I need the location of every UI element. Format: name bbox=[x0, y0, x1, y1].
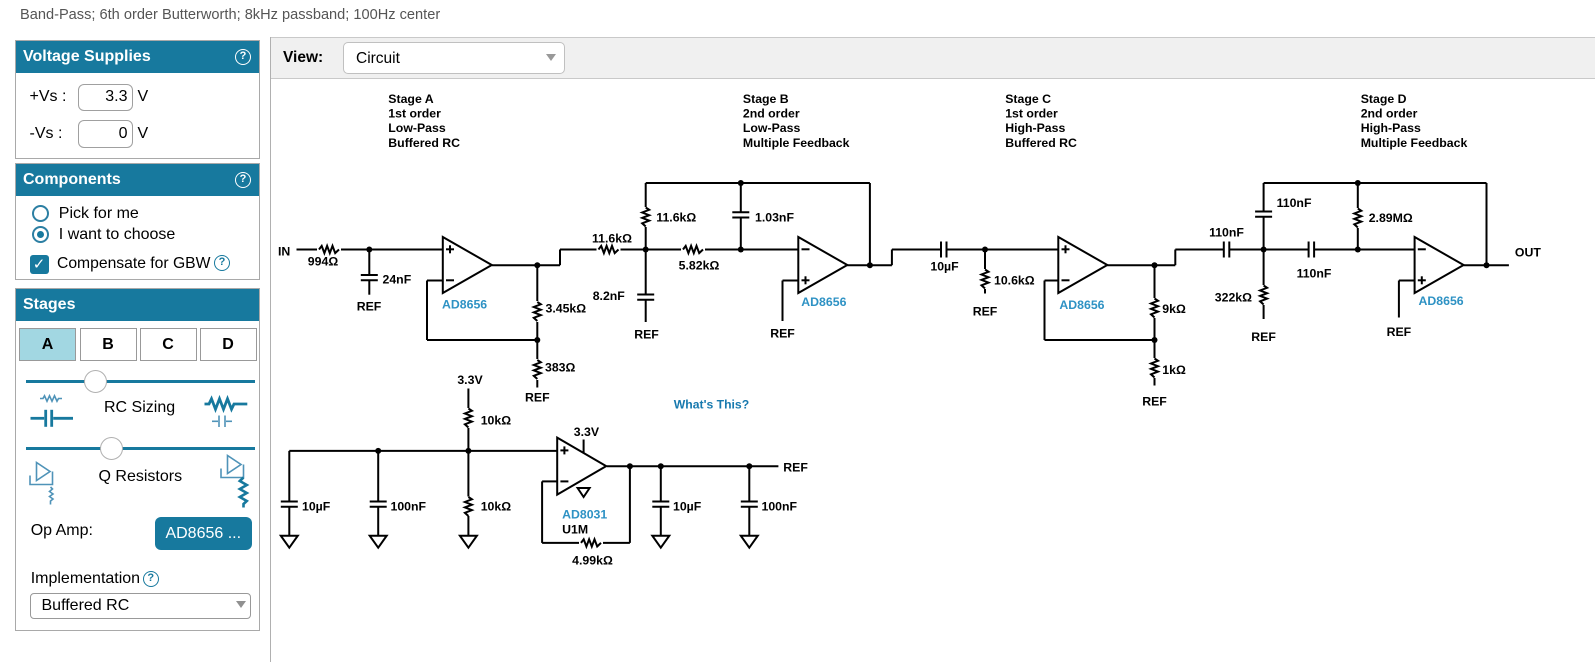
svg-text:5.82kΩ: 5.82kΩ bbox=[679, 259, 720, 273]
svg-text:100nF: 100nF bbox=[762, 500, 798, 514]
svg-text:Stage D: Stage D bbox=[1361, 92, 1407, 106]
svg-text:110nF: 110nF bbox=[1297, 267, 1332, 281]
svg-text:REF: REF bbox=[1387, 325, 1412, 339]
svg-text:REF: REF bbox=[525, 391, 550, 405]
svg-text:Stage C: Stage C bbox=[1005, 92, 1051, 106]
svg-text:1st order: 1st order bbox=[388, 107, 441, 121]
svg-text:1.03nF: 1.03nF bbox=[755, 211, 794, 225]
svg-text:3.3V: 3.3V bbox=[457, 373, 483, 387]
svg-text:Multiple Feedback: Multiple Feedback bbox=[743, 136, 850, 150]
svg-text:2.89MΩ: 2.89MΩ bbox=[1369, 211, 1413, 225]
svg-text:AD8656: AD8656 bbox=[442, 298, 487, 312]
svg-text:What's This?: What's This? bbox=[674, 398, 749, 412]
svg-text:100nF: 100nF bbox=[391, 500, 427, 514]
svg-text:Multiple Feedback: Multiple Feedback bbox=[1361, 136, 1468, 150]
svg-text:10µF: 10µF bbox=[673, 500, 702, 514]
svg-text:10kΩ: 10kΩ bbox=[481, 414, 512, 428]
svg-text:High-Pass: High-Pass bbox=[1005, 121, 1065, 135]
svg-text:110nF: 110nF bbox=[1209, 226, 1244, 240]
svg-text:OUT: OUT bbox=[1515, 246, 1541, 260]
svg-text:10µF: 10µF bbox=[930, 260, 959, 274]
svg-text:Stage B: Stage B bbox=[743, 92, 789, 106]
svg-text:322kΩ: 322kΩ bbox=[1215, 291, 1252, 305]
svg-text:1st order: 1st order bbox=[1005, 107, 1058, 121]
svg-text:994Ω: 994Ω bbox=[308, 255, 339, 269]
svg-text:AD8656: AD8656 bbox=[801, 295, 846, 309]
svg-text:REF: REF bbox=[1142, 395, 1167, 409]
svg-text:REF: REF bbox=[1251, 330, 1276, 344]
svg-text:REF: REF bbox=[357, 300, 382, 314]
svg-text:2nd order: 2nd order bbox=[743, 107, 800, 121]
svg-text:383Ω: 383Ω bbox=[545, 361, 576, 375]
svg-text:Buffered RC: Buffered RC bbox=[388, 136, 460, 150]
svg-text:Stage A: Stage A bbox=[388, 92, 433, 106]
svg-text:AD8031: AD8031 bbox=[562, 508, 607, 522]
svg-text:3.45kΩ: 3.45kΩ bbox=[546, 302, 587, 316]
svg-text:10.6kΩ: 10.6kΩ bbox=[994, 274, 1035, 288]
svg-text:9kΩ: 9kΩ bbox=[1162, 302, 1186, 316]
svg-text:11.6kΩ: 11.6kΩ bbox=[592, 232, 632, 246]
svg-text:Low-Pass: Low-Pass bbox=[388, 121, 446, 135]
svg-text:Low-Pass: Low-Pass bbox=[743, 121, 801, 135]
svg-text:REF: REF bbox=[634, 328, 659, 342]
svg-text:Buffered RC: Buffered RC bbox=[1005, 136, 1077, 150]
svg-text:4.99kΩ: 4.99kΩ bbox=[572, 554, 613, 568]
svg-text:24nF: 24nF bbox=[383, 273, 412, 287]
svg-text:2nd order: 2nd order bbox=[1361, 107, 1418, 121]
svg-text:REF: REF bbox=[770, 327, 795, 341]
svg-text:REF: REF bbox=[973, 305, 998, 319]
svg-text:11.6kΩ: 11.6kΩ bbox=[656, 211, 696, 225]
svg-text:U1M: U1M bbox=[562, 523, 588, 537]
svg-text:High-Pass: High-Pass bbox=[1361, 121, 1421, 135]
svg-text:AD8656: AD8656 bbox=[1419, 294, 1464, 308]
svg-text:IN: IN bbox=[278, 245, 290, 259]
svg-text:REF: REF bbox=[783, 461, 808, 475]
svg-text:AD8656: AD8656 bbox=[1059, 298, 1104, 312]
svg-text:10µF: 10µF bbox=[302, 500, 331, 514]
svg-text:10kΩ: 10kΩ bbox=[481, 500, 512, 514]
svg-text:8.2nF: 8.2nF bbox=[593, 289, 626, 303]
svg-text:110nF: 110nF bbox=[1277, 196, 1312, 210]
svg-text:3.3V: 3.3V bbox=[574, 425, 600, 439]
svg-text:1kΩ: 1kΩ bbox=[1162, 363, 1186, 377]
